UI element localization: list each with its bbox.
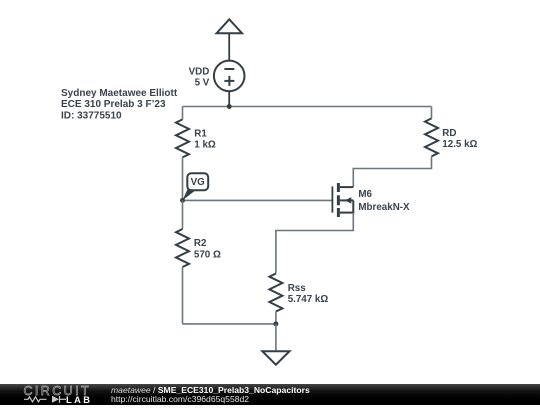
- label R1 1 kOhm: [194, 128, 216, 150]
- svg-text:ID: 33775510: ID: 33775510: [61, 110, 122, 121]
- svg-text:1 kΩ: 1 kΩ: [194, 140, 216, 151]
- wire top rail: [183, 106, 432, 108]
- footer bar: [0, 384, 540, 405]
- label R2 570 Ohm: [194, 238, 221, 260]
- logo squiggle resistor and diode: [24, 396, 66, 403]
- label RD 12.5 kOhm: [442, 128, 477, 150]
- voltage source VDD 5V: [214, 61, 245, 92]
- wire R2 to bottom rail: [182, 267, 184, 324]
- svg-text:ECE 310 Prelab 3 F’23: ECE 310 Prelab 3 F’23: [61, 99, 166, 110]
- node VG callout: [183, 173, 209, 200]
- resistor R1: [176, 119, 189, 157]
- wire VDD flag to source: [228, 33, 230, 61]
- wire top rail to R1: [182, 107, 184, 120]
- svg-text:MbreakN-X: MbreakN-X: [358, 202, 410, 213]
- transistor M6 MbreakN-X: [332, 183, 353, 217]
- label Rss 5.747 kOhm: [288, 283, 329, 305]
- junction node VG: [180, 198, 185, 203]
- wire gate: [183, 199, 332, 201]
- svg-text:RD: RD: [442, 128, 456, 139]
- wire node VG to R2: [182, 200, 184, 229]
- annotation title block: [61, 88, 178, 121]
- svg-text:LAB: LAB: [66, 395, 92, 405]
- label VDD 5 V: [189, 67, 210, 89]
- junction top rail: [227, 104, 232, 109]
- svg-text:5 V: 5 V: [195, 78, 210, 89]
- wire source to top rail: [228, 91, 230, 106]
- resistor RD: [425, 118, 438, 156]
- resistor Rss: [269, 274, 282, 312]
- resistor R2: [176, 229, 189, 267]
- svg-text:VDD: VDD: [189, 67, 210, 78]
- wire bottom rail: [183, 323, 276, 325]
- junction bottom rail: [273, 321, 278, 326]
- svg-text:570 Ω: 570 Ω: [194, 249, 221, 260]
- svg-text:VG: VG: [191, 177, 206, 188]
- svg-text:12.5 kΩ: 12.5 kΩ: [442, 139, 477, 150]
- power flag VDD: [217, 19, 242, 33]
- wire top rail to RD: [431, 107, 433, 119]
- wire R1 to node VG: [182, 157, 184, 200]
- svg-text:M6: M6: [358, 189, 372, 200]
- svg-text:R2: R2: [194, 238, 207, 249]
- wire RD bottom to drain: [353, 156, 431, 187]
- svg-text:5.747 kΩ: 5.747 kΩ: [288, 294, 329, 305]
- svg-text:Rss: Rss: [288, 283, 307, 294]
- ground: [262, 351, 289, 365]
- footer text: [111, 386, 310, 405]
- svg-text:R1: R1: [194, 128, 207, 139]
- wire Rss to bottom rail: [275, 312, 277, 324]
- svg-text:Sydney Maetawee Elliott: Sydney Maetawee Elliott: [61, 88, 178, 99]
- wire source to Rss: [276, 213, 353, 274]
- wire to ground: [275, 324, 277, 351]
- label M6 MbreakN-X: [358, 189, 410, 213]
